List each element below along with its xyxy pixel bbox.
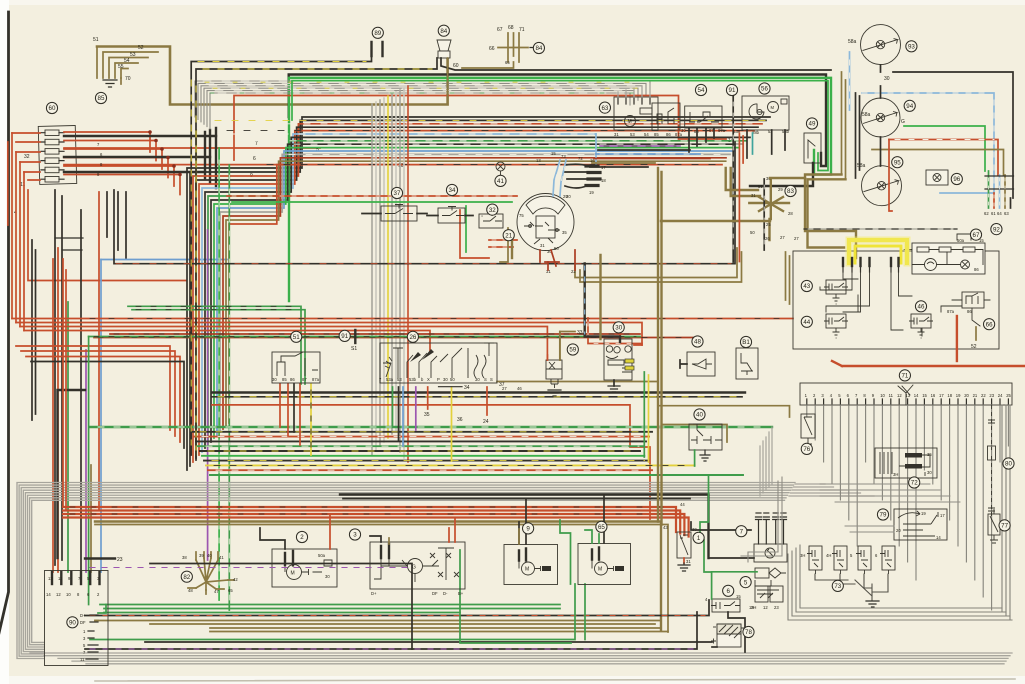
headlight 95 bbox=[862, 166, 902, 206]
svg-text:24: 24 bbox=[998, 393, 1003, 398]
relay 44 bbox=[826, 314, 846, 328]
clock 79 internals bbox=[898, 511, 938, 536]
wire flasher black top bbox=[585, 264, 620, 343]
wire red into 59 bbox=[546, 355, 548, 360]
svg-text:6: 6 bbox=[253, 156, 256, 162]
junction dots box60 bbox=[148, 130, 182, 176]
ignition terminal wires bbox=[565, 164, 588, 188]
wire black row d1 bbox=[212, 391, 745, 393]
svg-text:53: 53 bbox=[397, 377, 402, 382]
relay 51 box bbox=[272, 352, 320, 383]
wire 48 left stub bbox=[680, 360, 687, 368]
component 49 box bbox=[804, 133, 821, 163]
ignition green frame bbox=[232, 202, 512, 252]
label circle 72 bbox=[909, 477, 920, 488]
svg-text:29: 29 bbox=[778, 187, 783, 192]
label circle 46 bbox=[915, 301, 926, 312]
wire black frame left low bbox=[58, 390, 86, 558]
wire gray loops bottom right bbox=[741, 477, 782, 562]
svg-text:71: 71 bbox=[901, 373, 908, 380]
wire green left drop bbox=[88, 337, 90, 605]
svg-text:7: 7 bbox=[255, 141, 258, 147]
svg-text:B+: B+ bbox=[458, 591, 464, 596]
headlight 93 bbox=[861, 25, 901, 65]
svg-text:46: 46 bbox=[517, 386, 522, 391]
wire black row r2 bbox=[590, 166, 648, 168]
wire blue flasher bbox=[584, 266, 586, 334]
wire purple col V1 bbox=[207, 230, 209, 560]
circle 67 gauge line bbox=[957, 234, 971, 240]
wire black 567 row bbox=[150, 564, 412, 650]
svg-text:11: 11 bbox=[889, 393, 894, 398]
label circle 59 bbox=[567, 344, 578, 355]
svg-text:12: 12 bbox=[897, 393, 902, 398]
fuse 1 box bbox=[677, 532, 691, 558]
label circle 2 bbox=[296, 531, 307, 542]
switch 37 bbox=[381, 206, 417, 221]
wire red to pin12 bbox=[57, 248, 59, 572]
svg-text:66: 66 bbox=[489, 46, 495, 52]
wire ignition 21 22 drops bbox=[548, 250, 575, 270]
wire corners to box 71 left bbox=[760, 427, 772, 496]
coil 5 bbox=[755, 568, 769, 578]
ignition internals bbox=[526, 196, 565, 214]
wire red top bus bbox=[234, 96, 726, 161]
label circle 71 bbox=[899, 370, 910, 381]
wire red 52 drop bbox=[956, 316, 958, 361]
wire red far left bbox=[7, 142, 9, 225]
blower 56 box bbox=[742, 96, 789, 130]
wire red to pin13 bbox=[52, 259, 54, 572]
svg-text:14: 14 bbox=[46, 592, 51, 597]
wire yellow 36 drop bbox=[451, 387, 453, 461]
svg-text:25: 25 bbox=[766, 222, 771, 227]
svg-text:58a: 58a bbox=[862, 112, 871, 118]
svg-text:3: 3 bbox=[353, 532, 357, 539]
wire olive ground row bbox=[497, 381, 658, 383]
svg-text:51: 51 bbox=[93, 37, 99, 43]
svg-text:30: 30 bbox=[884, 76, 890, 82]
wire cluster int2 bbox=[826, 272, 912, 330]
svg-text:58a: 58a bbox=[857, 163, 866, 169]
wire black row r1 bbox=[598, 149, 690, 151]
wire red row d1 bbox=[212, 405, 650, 519]
instrument gauge bbox=[925, 259, 937, 271]
wires red left of box 60 bbox=[12, 133, 40, 180]
label circle 56 bbox=[759, 83, 770, 94]
wire bundle gray bottom bbox=[30, 652, 1012, 654]
wire black hl93 loop bbox=[893, 72, 1013, 198]
label circle 26 bbox=[407, 331, 418, 342]
svg-text:55: 55 bbox=[118, 64, 124, 70]
svg-text:19: 19 bbox=[749, 605, 754, 610]
wire yellow inner bbox=[855, 246, 901, 263]
label circle 76 bbox=[801, 443, 812, 454]
svg-text:53a: 53a bbox=[386, 377, 394, 382]
lamp 41 bbox=[496, 162, 505, 171]
wire black left edge pair bbox=[32, 240, 36, 420]
svg-text:93: 93 bbox=[908, 44, 915, 51]
svg-text:S1: S1 bbox=[351, 346, 357, 352]
wire darkred row r bbox=[594, 158, 710, 160]
svg-text:S: S bbox=[484, 377, 487, 382]
svg-text:36: 36 bbox=[457, 417, 463, 423]
svg-text:82: 82 bbox=[183, 574, 190, 581]
wire 63 box pins up bbox=[618, 84, 650, 97]
wire green bottom long 2 bbox=[104, 609, 560, 613]
svg-text:54: 54 bbox=[644, 132, 649, 137]
svg-text:87a: 87a bbox=[312, 377, 320, 382]
svg-text:95: 95 bbox=[894, 159, 901, 166]
label circle 65 bbox=[596, 521, 607, 532]
wire olive ignition left bbox=[500, 228, 508, 262]
svg-text:23: 23 bbox=[774, 605, 779, 610]
wire fan 82 bbox=[196, 558, 228, 590]
svg-text:32: 32 bbox=[489, 207, 496, 214]
svg-text:86: 86 bbox=[290, 377, 295, 382]
label circle 3 bbox=[349, 529, 360, 540]
label circle 54 bbox=[695, 84, 706, 95]
wire olive branch 71 bbox=[658, 406, 790, 442]
svg-text:30: 30 bbox=[927, 470, 932, 475]
wire green col V1 b bbox=[228, 165, 230, 610]
svg-text:7: 7 bbox=[740, 528, 744, 535]
blower 56 fan bbox=[749, 104, 764, 119]
svg-text:86: 86 bbox=[666, 132, 671, 137]
svg-text:4H: 4H bbox=[826, 553, 831, 558]
wire olive staircase ign bbox=[575, 248, 742, 282]
wiper motor 9 box bbox=[504, 545, 558, 585]
wire green to pin10 bbox=[67, 302, 69, 572]
spark plug wires 7 bbox=[756, 517, 762, 544]
wire DF olive bbox=[95, 620, 98, 622]
svg-text:85: 85 bbox=[282, 377, 287, 382]
wire motor 65 feeds bbox=[585, 530, 599, 543]
wire olive row r bbox=[592, 162, 655, 164]
relay 73b bbox=[834, 546, 847, 570]
svg-text:64: 64 bbox=[997, 211, 1002, 216]
svg-text:51: 51 bbox=[293, 334, 300, 341]
label circle 94 bbox=[904, 100, 915, 111]
label circle 89 bbox=[372, 27, 383, 38]
label circle 92 bbox=[991, 224, 1002, 235]
relay 54 box bbox=[685, 106, 722, 128]
instrument wires bbox=[904, 250, 983, 265]
svg-text:X: X bbox=[427, 377, 430, 382]
svg-text:32: 32 bbox=[24, 154, 30, 160]
wire red return row 2 bbox=[21, 351, 175, 436]
svg-text:50a: 50a bbox=[957, 238, 965, 243]
wire red to dimmer bbox=[739, 133, 743, 261]
wire green 65 drop bbox=[584, 584, 586, 640]
wire purple to pin6 bbox=[85, 350, 87, 572]
svg-text:94: 94 bbox=[906, 103, 913, 110]
wire red 35 drop bbox=[427, 387, 429, 409]
wire bundle red battery feed bbox=[63, 507, 676, 532]
svg-text:87: 87 bbox=[302, 377, 307, 382]
svg-text:50a: 50a bbox=[318, 553, 326, 558]
connector 90 box bbox=[45, 571, 109, 666]
wire motor 65 green left bbox=[560, 520, 571, 584]
board 71 strip bbox=[800, 383, 1012, 405]
svg-text:78: 78 bbox=[745, 629, 752, 636]
relay 54 internals bbox=[689, 112, 719, 122]
svg-text:48: 48 bbox=[188, 588, 193, 593]
svg-text:B1: B1 bbox=[742, 339, 750, 346]
wire yellow-black drop bbox=[310, 384, 312, 455]
wire black-magenta dashed bottom bbox=[85, 612, 697, 649]
regulator 72 internals bbox=[880, 452, 892, 474]
wire blue hl vert dash bbox=[850, 58, 995, 190]
wire red long row 1 bbox=[12, 318, 793, 320]
svg-text:14: 14 bbox=[936, 535, 941, 540]
instrument subbox bbox=[912, 243, 985, 274]
fuse 76 bbox=[801, 414, 815, 438]
wiper motor 63 M bbox=[625, 116, 636, 127]
wire black left col bbox=[55, 190, 62, 565]
fuse 77 bbox=[988, 514, 1000, 535]
relay 43 bbox=[826, 280, 846, 294]
wire red return row 1 bbox=[16, 346, 170, 430]
svg-text:16: 16 bbox=[931, 393, 936, 398]
svg-text:60: 60 bbox=[49, 105, 56, 112]
svg-text:2: 2 bbox=[300, 534, 304, 541]
svg-text:24: 24 bbox=[483, 419, 489, 425]
svg-text:31: 31 bbox=[751, 193, 756, 198]
svg-text:11: 11 bbox=[58, 576, 63, 581]
wire red dash vert 61 bbox=[993, 193, 995, 208]
wire green coil bbox=[712, 572, 757, 599]
label circle 84 bbox=[533, 42, 544, 53]
wire green col V1 a bbox=[218, 148, 220, 600]
bottom scan shadow bbox=[95, 679, 1015, 681]
label circle 1 bbox=[693, 532, 704, 543]
svg-text:25: 25 bbox=[1006, 393, 1011, 398]
svg-text:54: 54 bbox=[124, 58, 130, 64]
wire purple-black row bbox=[600, 145, 680, 147]
label circle B1 bbox=[740, 336, 751, 347]
wire black to pin8 bbox=[80, 210, 82, 572]
wire black coil bbox=[709, 557, 755, 559]
wire green dash vert 62 bbox=[988, 171, 990, 208]
wire flasher right red bbox=[620, 330, 642, 345]
ignition terminals 16-19 bbox=[586, 166, 600, 186]
wire drops relay51 bbox=[280, 384, 300, 445]
svg-text:62: 62 bbox=[984, 211, 989, 216]
wire motor 9 feeds bbox=[519, 499, 526, 544]
svg-text:73: 73 bbox=[834, 583, 841, 590]
svg-text:61: 61 bbox=[991, 211, 996, 216]
svg-text:18: 18 bbox=[947, 393, 952, 398]
wire bundle lower rows bbox=[90, 426, 772, 428]
svg-text:11: 11 bbox=[80, 657, 85, 662]
wire bundle gray top bus bbox=[195, 81, 650, 117]
wire green second top bbox=[292, 81, 828, 171]
svg-text:84: 84 bbox=[535, 45, 542, 52]
wire green bottom long 1 bbox=[100, 604, 560, 606]
wire red frame flasher bbox=[588, 318, 642, 344]
label circle 83 bbox=[785, 185, 796, 196]
switch 32 bbox=[479, 214, 503, 228]
generator 3 G bbox=[408, 559, 423, 574]
wire black bottom bbox=[145, 641, 712, 643]
svg-text:92: 92 bbox=[993, 226, 1000, 233]
wire D+ green bbox=[98, 605, 106, 614]
wire bundle gray into 71 bbox=[789, 484, 874, 496]
label circle 43 bbox=[801, 280, 812, 291]
svg-text:1: 1 bbox=[697, 535, 701, 542]
svg-text:D+: D+ bbox=[371, 591, 377, 596]
svg-text:19: 19 bbox=[589, 190, 594, 195]
wire blue hl long bbox=[850, 52, 995, 193]
svg-text:15: 15 bbox=[736, 594, 741, 599]
svg-text:77: 77 bbox=[1001, 523, 1008, 530]
label circle 77 bbox=[999, 520, 1010, 531]
label circle 93 bbox=[906, 41, 917, 52]
connector 90 pins bbox=[51, 572, 53, 584]
antenna chain 80 bbox=[991, 405, 993, 520]
svg-text:63: 63 bbox=[601, 105, 608, 112]
svg-text:49: 49 bbox=[809, 121, 816, 128]
svg-text:52: 52 bbox=[138, 45, 144, 51]
wire relay54 pins up bbox=[689, 128, 714, 152]
wire green hl bbox=[904, 126, 985, 171]
svg-text:31: 31 bbox=[686, 559, 691, 564]
wire red left col drop bbox=[63, 259, 66, 511]
svg-text:27: 27 bbox=[780, 235, 785, 240]
lamp box 96 bbox=[926, 170, 948, 185]
svg-text:70: 70 bbox=[125, 76, 131, 82]
svg-text:86: 86 bbox=[967, 309, 972, 314]
label circle 67 bbox=[970, 229, 981, 240]
wire olive col bbox=[90, 465, 92, 572]
svg-text:21: 21 bbox=[505, 232, 512, 239]
svg-text:52: 52 bbox=[971, 344, 977, 350]
svg-text:M: M bbox=[598, 567, 602, 573]
svg-text:9: 9 bbox=[526, 526, 530, 533]
svg-text:20: 20 bbox=[964, 393, 969, 398]
svg-text:86: 86 bbox=[974, 267, 979, 272]
wire bundle vertical center-left bbox=[371, 104, 373, 455]
svg-text:66: 66 bbox=[986, 321, 993, 328]
headlight 94 bbox=[861, 98, 900, 137]
wire olive verticals mid bbox=[658, 168, 662, 525]
wire blue bus drop to ignition bbox=[595, 134, 597, 165]
wire olive dimmer stub bbox=[770, 177, 805, 179]
svg-text:3H: 3H bbox=[800, 553, 805, 558]
svg-text:53b: 53b bbox=[409, 377, 417, 382]
switch 89 pins bbox=[372, 42, 383, 56]
label circle 90 bbox=[67, 617, 78, 628]
label circle 96 bbox=[951, 173, 962, 184]
svg-text:35: 35 bbox=[927, 452, 932, 457]
wire 78 link bbox=[728, 612, 745, 652]
ground resistor 59 bbox=[548, 390, 561, 396]
wire horn olive drop bbox=[447, 58, 449, 99]
svg-text:91: 91 bbox=[729, 87, 736, 94]
battery plus wire bbox=[712, 646, 717, 648]
svg-text:58a: 58a bbox=[848, 39, 857, 45]
wire yellow main bbox=[849, 240, 907, 263]
svg-text:53: 53 bbox=[630, 132, 635, 137]
svg-text:29: 29 bbox=[563, 194, 568, 199]
label circle 41 bbox=[495, 175, 506, 186]
label circle 48 bbox=[692, 336, 703, 347]
wire blue to pin2 bbox=[100, 260, 102, 573]
ground flasher bbox=[608, 386, 620, 392]
svg-text:72: 72 bbox=[911, 480, 918, 487]
svg-text:43: 43 bbox=[803, 283, 810, 290]
wire olive 33 stub bbox=[560, 332, 575, 361]
svg-text:19: 19 bbox=[921, 511, 926, 516]
wire red long row 2 bbox=[16, 323, 642, 361]
svg-text:34: 34 bbox=[449, 187, 456, 194]
label circle 9 bbox=[523, 523, 534, 534]
wire black-yellow horn run2 bbox=[196, 58, 437, 460]
ignition switch body bbox=[517, 194, 574, 251]
switch 34 bbox=[438, 208, 465, 223]
label circle 63 bbox=[599, 102, 610, 113]
label circle 91 bbox=[726, 84, 737, 95]
component 49 lever bbox=[808, 140, 815, 158]
label circle 73 bbox=[832, 580, 843, 591]
svg-text:47: 47 bbox=[214, 589, 219, 594]
generator 3 box bbox=[370, 542, 465, 589]
svg-text:65: 65 bbox=[505, 60, 510, 65]
wire olive left pair down bbox=[842, 72, 846, 179]
wire red left edge 2 bbox=[20, 162, 24, 331]
svg-text:53: 53 bbox=[130, 52, 136, 58]
svg-text:28: 28 bbox=[788, 211, 793, 216]
label circle 5 bbox=[740, 577, 751, 588]
wire antenna drop bbox=[462, 62, 514, 68]
svg-text:44: 44 bbox=[680, 502, 685, 507]
svg-text:3H: 3H bbox=[893, 472, 898, 477]
svg-text:26: 26 bbox=[765, 236, 770, 241]
label circle 51 bbox=[291, 331, 302, 342]
relay 73d bbox=[882, 546, 895, 570]
blower 56 M bbox=[768, 102, 779, 113]
svg-text:73: 73 bbox=[561, 154, 566, 159]
wire red return row 3 bbox=[26, 357, 180, 443]
wiper motor 65 box bbox=[578, 544, 631, 585]
wire sw37 sides bbox=[362, 213, 427, 215]
wire yellow hl glow bbox=[849, 240, 907, 263]
svg-text:G: G bbox=[901, 119, 905, 125]
label circle 30 bbox=[613, 322, 624, 333]
switch 26 box bbox=[380, 343, 497, 383]
wire 91 brown drop bbox=[732, 96, 734, 262]
wire olive bottom pair bbox=[210, 628, 668, 632]
antenna 84 mast bbox=[508, 33, 519, 62]
wire hl stub 30 bbox=[880, 65, 882, 166]
svg-text:65: 65 bbox=[598, 524, 605, 531]
flasher pins down bbox=[613, 380, 615, 386]
svg-text:54: 54 bbox=[698, 87, 705, 94]
wire cluster int3 bbox=[844, 279, 990, 336]
wire olive below dimmer bbox=[661, 219, 770, 240]
label circle 49 bbox=[806, 118, 817, 129]
scan page edge bbox=[0, 12, 9, 646]
wire black dash instr bbox=[804, 228, 957, 230]
board 71 right rail bbox=[1002, 405, 1010, 620]
svg-text:35: 35 bbox=[424, 412, 430, 418]
wire red top right bbox=[832, 361, 1025, 366]
svg-text:39: 39 bbox=[199, 553, 204, 558]
svg-text:40: 40 bbox=[696, 412, 703, 419]
cluster connector pins bbox=[842, 258, 844, 266]
svg-text:30: 30 bbox=[325, 574, 330, 579]
